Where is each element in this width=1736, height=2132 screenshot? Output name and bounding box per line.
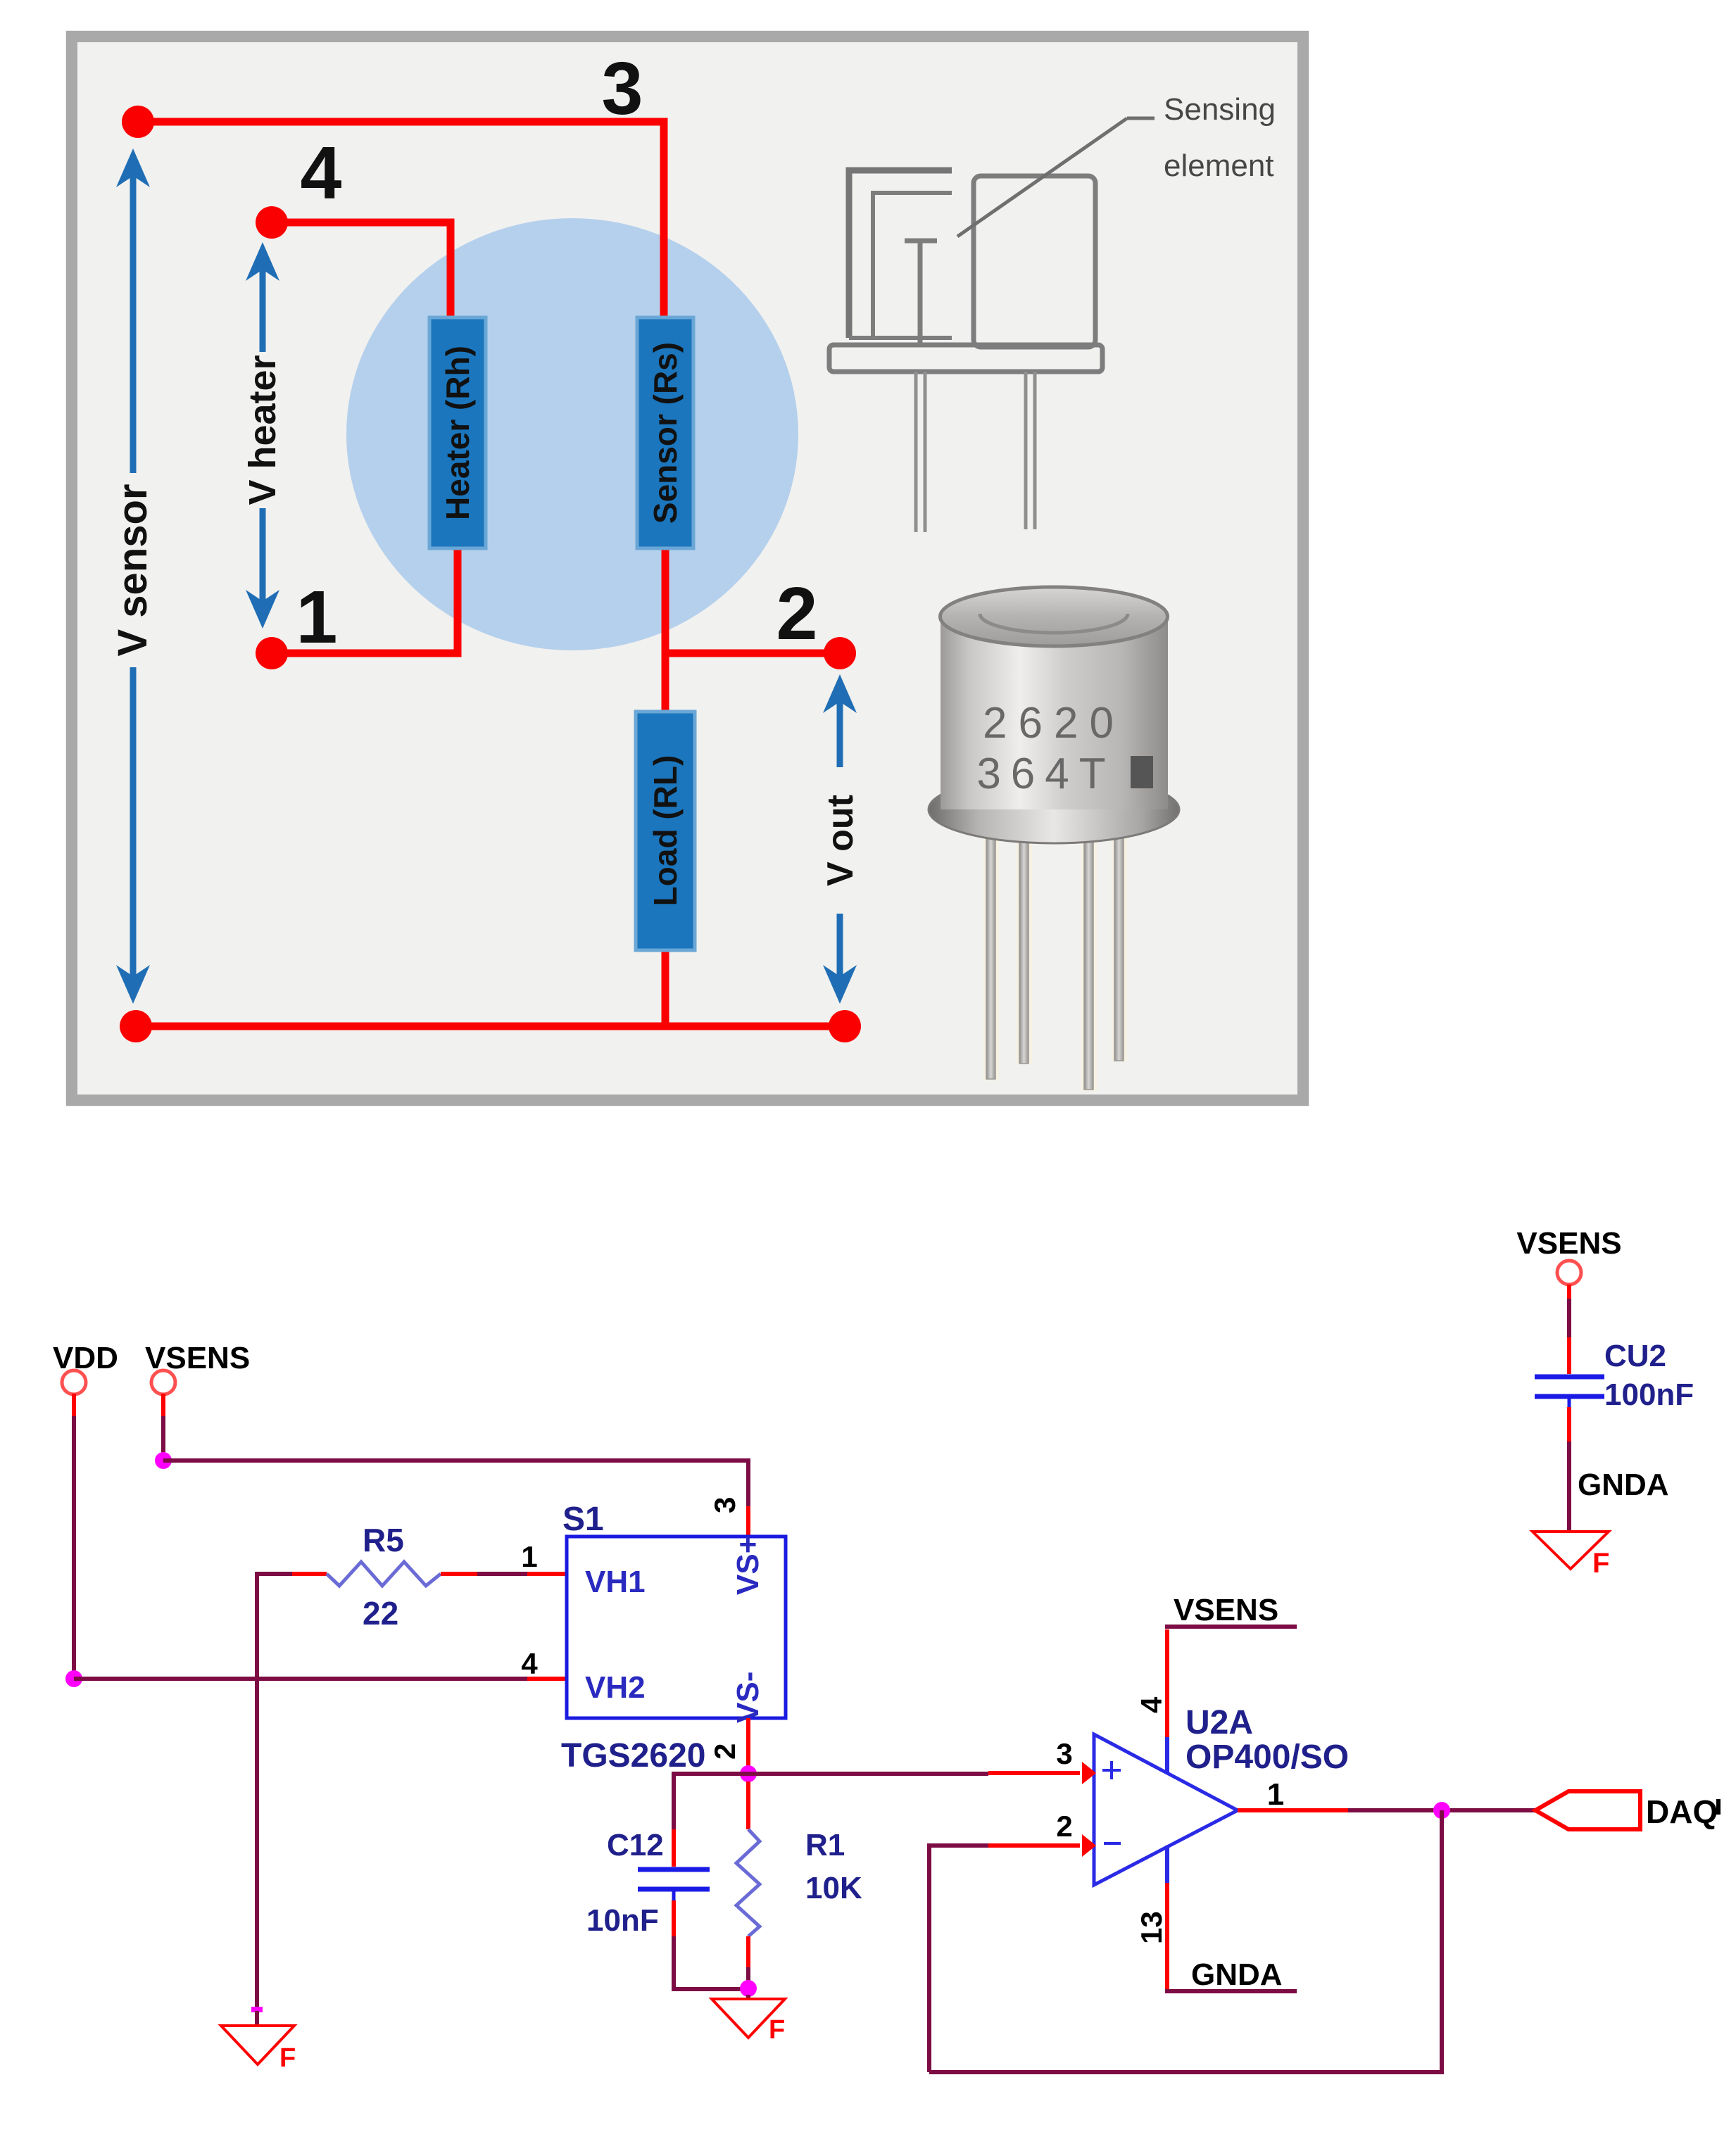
wire pin3 top: [138, 122, 664, 317]
svg-text:TGS2620: TGS2620: [561, 1737, 705, 1774]
svg-text:1: 1: [296, 576, 338, 659]
svg-text:1: 1: [1267, 1777, 1284, 1812]
wire C12 bottom: [674, 1936, 748, 1989]
label 4: [301, 132, 342, 215]
pin stub VS+: [746, 1506, 750, 1537]
svg-text:VS+: VS+: [731, 1536, 765, 1595]
wire heater bottom to node 1: [272, 548, 458, 653]
capacitor CU2: [1535, 1339, 1694, 1412]
dangling end marker: [251, 2007, 263, 2012]
VDD power symbol: [53, 1341, 118, 1416]
ground F right: [1533, 1532, 1609, 1579]
svg-text:V sensor: V sensor: [110, 484, 156, 657]
svg-text:element: element: [1164, 149, 1274, 183]
svg-text:2: 2: [776, 572, 818, 655]
svg-text:U2A: U2A: [1185, 1704, 1253, 1741]
wire VDD vertical: [72, 1416, 76, 1679]
wire node to op-amp: [748, 1772, 988, 1776]
node dot bottom-left: [120, 1010, 152, 1042]
svg-text:13: 13: [1135, 1911, 1168, 1944]
svg-text:DAQ: DAQ: [1646, 1793, 1718, 1830]
sensing area circle: [346, 218, 798, 650]
wire R5 branch: [257, 1574, 292, 2010]
svg-text:3: 3: [708, 1497, 741, 1513]
bottom wire: [136, 1023, 845, 1030]
junction dot VDD: [65, 1670, 82, 1687]
panel frame: [68, 32, 1307, 1104]
svg-text:100nF: 100nF: [1604, 1377, 1694, 1412]
svg-text:C12: C12: [607, 1828, 664, 1862]
wire node to C12: [674, 1774, 748, 1829]
wire output to DAQ: [1348, 1808, 1535, 1812]
ground F center: [712, 1995, 785, 2045]
svg-text:S1: S1: [562, 1501, 604, 1538]
VSENS power symbol: [145, 1341, 250, 1416]
svg-text:2620: 2620: [983, 699, 1125, 748]
svg-text:3: 3: [1056, 1737, 1072, 1770]
node dot bottom-right: [829, 1010, 861, 1042]
node dot top-left: [122, 106, 154, 138]
wire to node 2: [665, 650, 840, 657]
V out arrow: [818, 674, 862, 1004]
node dot 4: [256, 206, 288, 239]
svg-text:VDD: VDD: [53, 1341, 118, 1375]
svg-text:10nF: 10nF: [586, 1903, 659, 1938]
node dot 2: [824, 637, 856, 669]
svg-text:1: 1: [521, 1540, 537, 1573]
VSENS net at op-amp: [1165, 1593, 1297, 1627]
ground F left: [221, 2011, 296, 2073]
pin stub VH1: [527, 1572, 567, 1576]
feedback wire: [929, 1810, 1442, 2072]
junction dot R1 bottom: [740, 1980, 757, 1997]
svg-text:VSENS: VSENS: [1516, 1226, 1621, 1261]
wire VSENS vertical: [161, 1416, 165, 1461]
svg-text:F: F: [1592, 1548, 1609, 1579]
svg-text:22: 22: [363, 1595, 398, 1632]
svg-text:2: 2: [708, 1743, 741, 1760]
op-amp power pin 4: [1135, 1629, 1168, 1737]
label 3: [602, 47, 643, 130]
resistor R5: [292, 1522, 527, 1632]
sensor structure sketch: [829, 118, 1155, 532]
node dot 1: [256, 637, 288, 669]
label 2: [776, 572, 818, 655]
svg-text:GNDA: GNDA: [1191, 1957, 1283, 1992]
IC S1 TGS2620: [521, 1497, 786, 1774]
svg-text:364T: 364T: [976, 750, 1115, 798]
svg-text:V out: V out: [820, 795, 861, 886]
svg-text:F: F: [769, 2015, 785, 2045]
op-amp input pin 2: [988, 1810, 1096, 1857]
svg-text:4: 4: [1135, 1696, 1168, 1713]
wire CU2 to ground: [1567, 1407, 1571, 1532]
GNDA label right: [1578, 1468, 1669, 1502]
heater Rh box: [429, 317, 486, 548]
VSENS power symbol right: [1516, 1226, 1621, 1299]
op-amp U2A: [1094, 1704, 1349, 1885]
wire pin4: [272, 222, 451, 317]
svg-text:Load (RL): Load (RL): [647, 755, 684, 907]
svg-text:10K: 10K: [805, 1871, 862, 1905]
capacitor C12: [586, 1828, 710, 1938]
svg-text:V heater: V heater: [241, 355, 284, 505]
label 1: [296, 576, 338, 659]
svg-text:VH2: VH2: [585, 1670, 646, 1705]
DAQ off-page connector: [1535, 1791, 1721, 1830]
svg-text:VSENS: VSENS: [1174, 1593, 1278, 1627]
resistor R1: [736, 1781, 862, 1988]
wire load bottom: [662, 950, 669, 1026]
V heater arrow: [241, 242, 284, 629]
svg-text:GNDA: GNDA: [1578, 1468, 1669, 1502]
pin stub VH2: [527, 1677, 567, 1681]
svg-text:VS-: VS-: [731, 1672, 765, 1723]
svg-text:3: 3: [602, 47, 643, 130]
svg-text:Sensor (Rs): Sensor (Rs): [647, 342, 684, 524]
wire sensor bottom through to load: [662, 548, 669, 712]
junction dot VS-: [740, 1765, 757, 1782]
V sensor arrow: [110, 149, 156, 1004]
svg-text:VH1: VH1: [585, 1565, 646, 1599]
sensor Rs box: [637, 317, 693, 548]
svg-text:CU2: CU2: [1604, 1339, 1666, 1373]
svg-text:F: F: [279, 2043, 296, 2073]
TGS2620 sensor photo: [929, 587, 1179, 1091]
svg-text:R5: R5: [363, 1522, 404, 1558]
sensing element label: [1164, 92, 1276, 183]
junction dot VSENS: [155, 1452, 172, 1469]
load RL box: [636, 712, 695, 950]
svg-text:Heater (Rh): Heater (Rh): [439, 346, 476, 520]
svg-text:2: 2: [1056, 1810, 1072, 1843]
op-amp output pin 1: [1238, 1777, 1348, 1812]
wire VSENS to CU2: [1567, 1299, 1571, 1374]
svg-text:OP400/SO: OP400/SO: [1185, 1739, 1349, 1776]
svg-text:Sensing: Sensing: [1164, 92, 1276, 127]
svg-text:R1: R1: [805, 1828, 845, 1862]
svg-text:4: 4: [301, 132, 342, 215]
op-amp power pin 13: [1135, 1883, 1168, 1991]
junction dot output: [1433, 1802, 1450, 1819]
wire VSENS to VS+: [163, 1461, 748, 1506]
wire VDD to VH2: [74, 1677, 527, 1681]
op-amp input pin 3: [988, 1737, 1096, 1784]
pin stub VS-: [746, 1718, 750, 1774]
GNDA net at op-amp: [1165, 1957, 1297, 1992]
wire to inverting input: [929, 1846, 988, 2072]
svg-text:4: 4: [521, 1647, 538, 1680]
